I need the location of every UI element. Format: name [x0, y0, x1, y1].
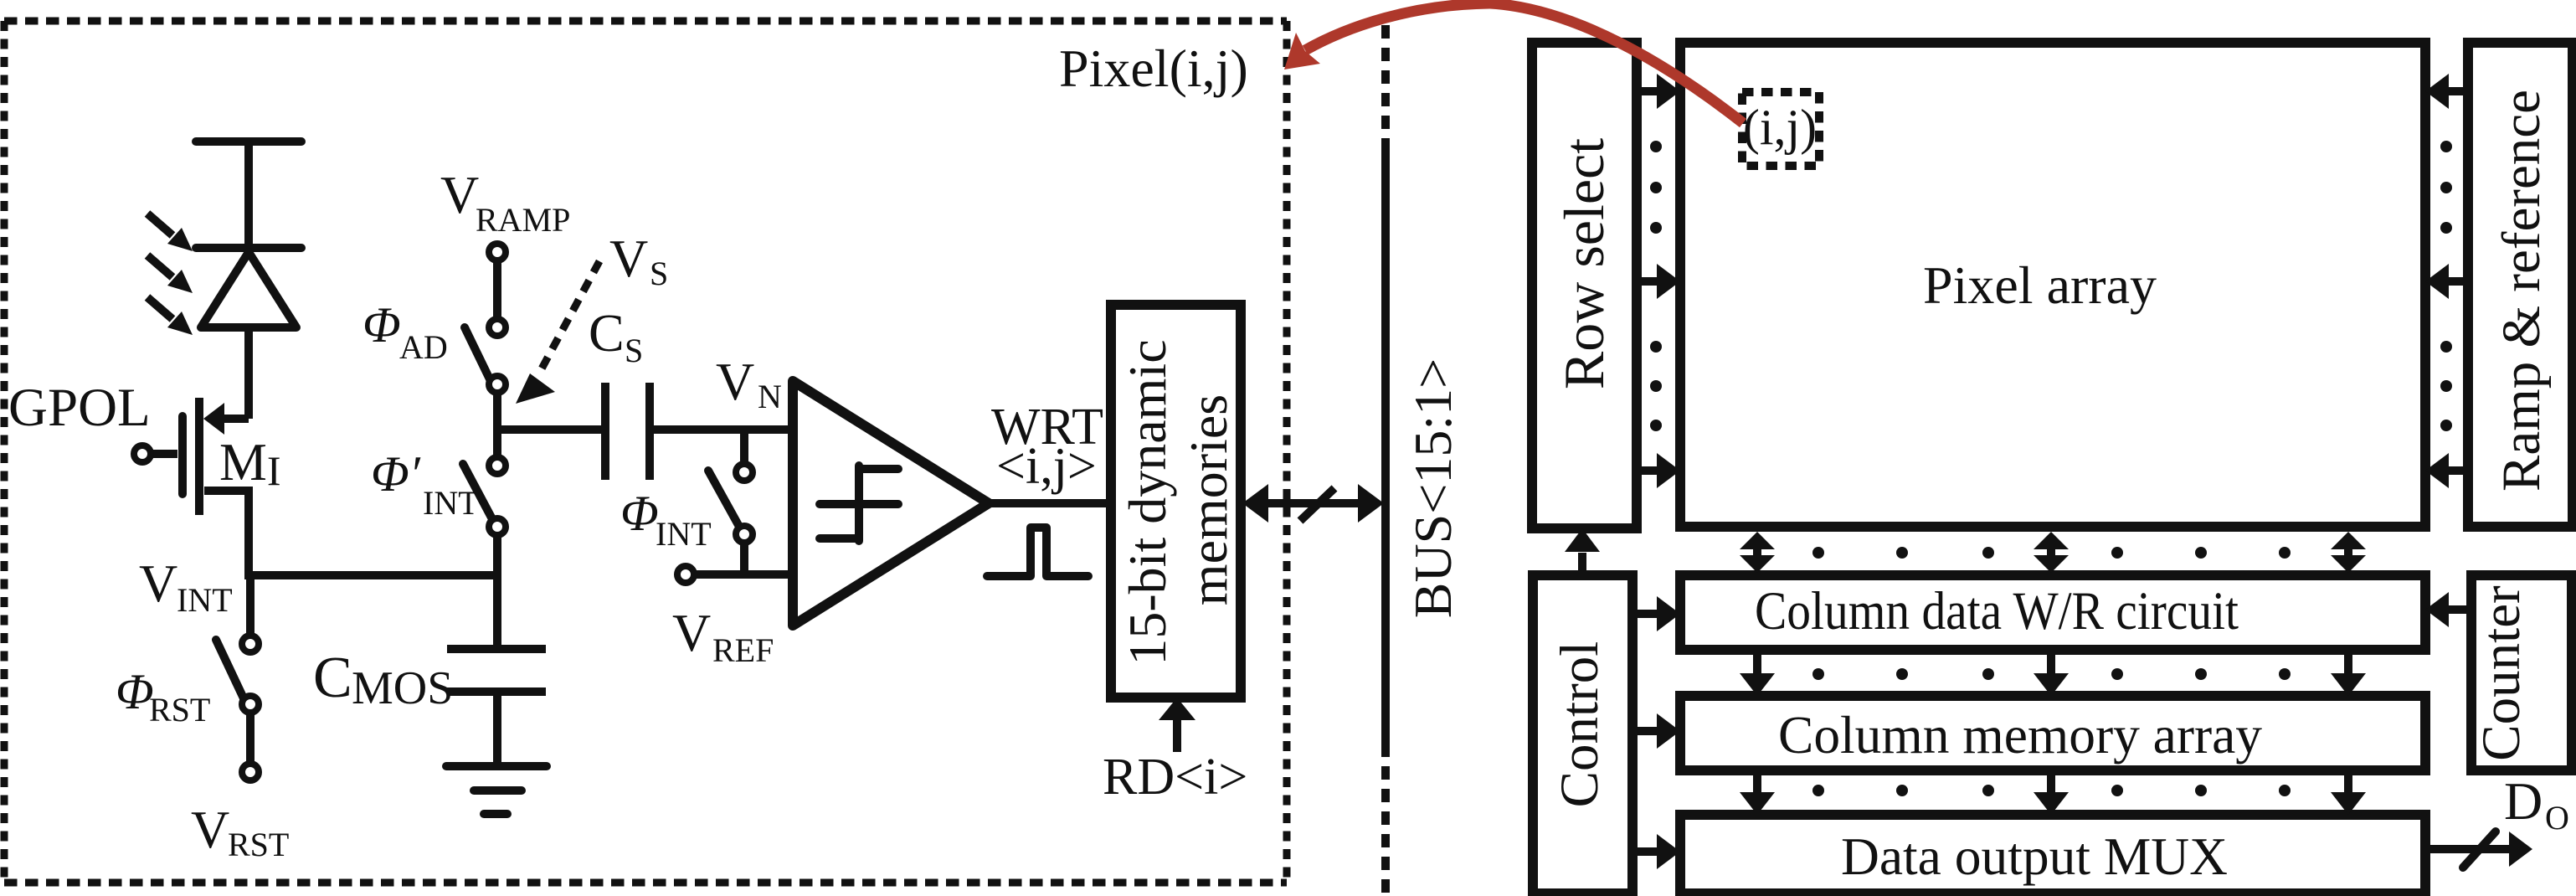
- block Column memory array: [1680, 696, 2425, 770]
- wire to V_RST terminal: [246, 713, 255, 762]
- down arrows W/R to Column memory: [1740, 650, 2366, 696]
- svg-text:D: D: [2504, 771, 2543, 831]
- switch PHI_RST bottom contact: [242, 696, 259, 713]
- double arrows Pixel array to Column data W/R: [1740, 532, 2366, 573]
- dashed pointer V_S: [540, 261, 599, 372]
- svg-text:O: O: [2545, 799, 2569, 837]
- red callout arrowhead: [1284, 33, 1320, 70]
- switch PHI_INT top contact: [736, 464, 753, 481]
- svg-text:<i,j>: <i,j>: [996, 438, 1097, 495]
- svg-text:V: V: [716, 352, 754, 411]
- arrows Control to column blocks: [1632, 596, 1680, 869]
- pulse glyph: [987, 528, 1088, 576]
- gate wire: [152, 450, 177, 458]
- terminal circle V_RAMP: [489, 244, 506, 260]
- switch PHI_INT bottom contact: [736, 526, 753, 543]
- switch PHI_INT stub: [740, 430, 748, 463]
- wire photodiode anode to M_I drain: [244, 327, 253, 419]
- BUS line dashed top: [1381, 25, 1390, 145]
- wire V_INT node to C_MOS: [493, 575, 501, 645]
- switch PHI_RST top contact: [242, 636, 259, 652]
- switch PHI_RST blade: [216, 640, 244, 698]
- arrows Row select to Pixel array: [1637, 74, 1680, 488]
- svg-text:RST: RST: [149, 691, 210, 729]
- wire supply to photodiode cathode: [244, 142, 253, 248]
- switch PHI'_INT top contact: [489, 457, 506, 474]
- svg-text:(i,j): (i,j): [1743, 100, 1817, 155]
- block Ramp & reference: [2468, 43, 2573, 527]
- svg-text:15-bit dynamic: 15-bit dynamic: [1118, 339, 1177, 665]
- memory block 15-bit dynamic memories: [1111, 305, 1241, 698]
- switch PHI_AD top contact: [489, 319, 506, 336]
- svg-text:INT: INT: [656, 515, 712, 553]
- dots row 1: [1812, 547, 2291, 559]
- block Counter: [2471, 575, 2572, 770]
- output arrow D_O: [2425, 845, 2512, 853]
- svg-text:Φ: Φ: [620, 486, 659, 541]
- comparator output wire WRT: [989, 499, 1116, 507]
- photodiode D cathode bar: [196, 244, 301, 252]
- capacitor C_MOS top plate: [447, 645, 546, 653]
- svg-text:Column memory array: Column memory array: [1778, 705, 2262, 765]
- svg-text:BUS<15:1>: BUS<15:1>: [1403, 358, 1463, 618]
- switch PHI_AD blade: [465, 327, 491, 383]
- ground symbol: [446, 766, 547, 814]
- gate terminal circle GPOL: [134, 445, 151, 462]
- svg-text:memories: memories: [1179, 394, 1238, 605]
- wire switch to node V_S: [493, 394, 501, 434]
- svg-text:Row select: Row select: [1552, 138, 1616, 389]
- BUS line dashed bottom: [1381, 744, 1390, 893]
- RD<i> input arrow: [1173, 717, 1181, 752]
- switch PHI_RST stub: [246, 575, 255, 634]
- svg-text:V: V: [191, 800, 229, 859]
- switch PHI_INT blade: [708, 471, 738, 525]
- pixel cell (i,j) dashed: [1742, 92, 1819, 166]
- block Column data W/R circuit: [1680, 575, 2425, 650]
- block Data output MUX: [1680, 815, 2425, 893]
- bus width slash: [1300, 488, 1334, 521]
- svg-text:REF: REF: [712, 631, 774, 669]
- wire source down to V_INT node: [244, 491, 253, 579]
- capacitor C_S left plate: [601, 383, 609, 480]
- dots row 2: [1812, 668, 2291, 680]
- svg-text:Pixel(i,j): Pixel(i,j): [1059, 39, 1248, 98]
- capacitor C_MOS bottom plate: [447, 687, 546, 696]
- svg-text:GPOL: GPOL: [8, 378, 151, 438]
- svg-text:Control: Control: [1550, 641, 1610, 808]
- svg-text:C: C: [589, 303, 625, 363]
- photodiode D triangle: [201, 252, 296, 327]
- block Row select: [1532, 43, 1637, 528]
- svg-text:Counter: Counter: [2471, 585, 2532, 761]
- svg-text:S: S: [650, 255, 668, 292]
- pixel cell dashed border Pixel(i,j): [4, 18, 1287, 25]
- svg-text:RD<i>: RD<i>: [1103, 749, 1247, 806]
- block Control: [1533, 575, 1632, 893]
- arrows Ramp to Pixel array: [2425, 74, 2468, 488]
- dots ramp column: [2440, 141, 2452, 431]
- svg-text:V: V: [672, 603, 711, 662]
- svg-text:AD: AD: [399, 328, 448, 366]
- bus connection arrow memories to BUS: [1252, 499, 1377, 507]
- wire V_RAMP to switch: [493, 261, 501, 318]
- transistor M_I channel bar: [195, 398, 203, 515]
- capacitor C_S right plate: [645, 383, 654, 480]
- wire V_REF to comparator: [694, 570, 793, 579]
- svg-text:Data output MUX: Data output MUX: [1841, 826, 2228, 886]
- svg-text:Φ: Φ: [116, 664, 154, 719]
- svg-text:V: V: [609, 229, 648, 288]
- svg-text:Φ: Φ: [362, 297, 401, 353]
- light arrow 3: [147, 297, 193, 335]
- svg-text:INT: INT: [177, 581, 233, 619]
- node wire V_S to C_S: [497, 425, 604, 434]
- switch PHI_AD bottom contact: [489, 376, 506, 393]
- svg-text:Ramp & reference: Ramp & reference: [2491, 90, 2552, 492]
- arrow Counter to W/R circuit: [2449, 605, 2471, 614]
- svg-text:Φ′: Φ′: [371, 446, 421, 502]
- M_I source wire: [204, 487, 253, 495]
- down arrows Column memory to MUX: [1740, 770, 2366, 815]
- svg-text:N: N: [758, 378, 782, 415]
- switch PHI'_INT stub: [493, 430, 501, 456]
- arrow Control to Row select: [1578, 553, 1586, 575]
- svg-text:Pixel array: Pixel array: [1923, 255, 2157, 315]
- switch PHI'_INT blade: [463, 464, 491, 518]
- svg-text:V: V: [139, 554, 177, 613]
- wire switch to V_INT node: [493, 536, 501, 579]
- svg-text:MOS: MOS: [352, 662, 453, 714]
- terminal circle V_RST: [242, 764, 259, 780]
- wire C_MOS to ground: [493, 696, 501, 763]
- supply rail bar: [196, 137, 301, 146]
- dots row select column: [1650, 141, 1662, 431]
- BUS line solid: [1381, 145, 1390, 744]
- terminal circle V_REF: [677, 566, 694, 583]
- node V_INT wire: [249, 571, 497, 579]
- svg-text:Column data W/R circuit: Column data W/R circuit: [1755, 581, 2239, 641]
- svg-text:S: S: [625, 332, 643, 369]
- switch PHI'_INT bottom contact: [489, 518, 506, 535]
- svg-text:C: C: [313, 646, 352, 710]
- dots row 3: [1812, 785, 2291, 796]
- svg-text:INT: INT: [423, 484, 479, 522]
- svg-text:V: V: [440, 165, 479, 224]
- block Pixel array: [1680, 43, 2425, 527]
- comparator U1 triangle: [793, 381, 989, 626]
- light arrow 2: [147, 255, 193, 293]
- red callout curve from (i,j) to Pixel(i,j): [1305, 3, 1743, 123]
- svg-text:RST: RST: [228, 826, 289, 863]
- node V_N wire: [654, 425, 793, 434]
- output slash: [2463, 832, 2496, 868]
- svg-text:RAMP: RAMP: [476, 201, 570, 239]
- wire switch to V_REF line: [740, 543, 748, 579]
- M_I drain wire with arrow: [219, 415, 249, 423]
- light arrow 1: [147, 214, 193, 251]
- comparator hysteresis glyph: [820, 466, 898, 541]
- transistor M_I gate bar: [178, 416, 187, 494]
